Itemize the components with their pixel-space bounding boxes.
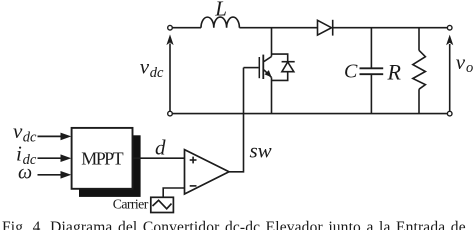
voltage arrow v_dc <box>166 34 173 111</box>
node: output positive terminal <box>447 25 452 30</box>
wire top rail: inductor to diode <box>239 27 317 29</box>
svg-text:dc: dc <box>150 65 164 81</box>
wire sw: comparator output to gate <box>229 68 244 172</box>
resistor R <box>413 50 426 89</box>
svg-text:v: v <box>456 50 466 74</box>
svg-text:v: v <box>13 119 23 143</box>
node: input negative terminal <box>168 111 173 116</box>
label input v_dc <box>13 119 37 145</box>
wire d: MPPT output to comparator plus input <box>133 157 185 159</box>
svg-text:L: L <box>214 0 227 20</box>
svg-text:v: v <box>140 55 150 79</box>
wire capacitor bottom <box>370 75 372 114</box>
wire top rail: diode to output terminal <box>333 27 448 29</box>
node: output negative terminal <box>447 111 452 116</box>
wire collector drop <box>271 28 273 57</box>
diode D1 <box>318 20 333 36</box>
svg-text:d: d <box>155 135 166 159</box>
voltage arrow v_o <box>446 35 453 112</box>
input arrow i_dc <box>38 154 72 162</box>
plus input marker <box>190 157 197 164</box>
input arrow omega <box>38 171 72 179</box>
input arrow v_dc <box>38 133 72 141</box>
node: input positive terminal <box>168 25 173 30</box>
label input i_dc <box>16 141 37 167</box>
carrier generator box <box>151 197 174 212</box>
wire emitter to bottom rail <box>271 77 273 113</box>
caption figure title <box>2 219 474 237</box>
label v_o <box>456 50 473 76</box>
inductor L <box>201 17 239 28</box>
freewheeling diode D2 across IGBT <box>272 54 295 80</box>
transistor Q1 (IGBT) <box>259 55 271 79</box>
svg-text:R: R <box>387 59 402 84</box>
svg-text:MPPT: MPPT <box>81 149 123 169</box>
MPPT block U1 <box>72 128 133 189</box>
wire top rail: input terminal to inductor <box>172 27 201 29</box>
wire resistor top <box>418 28 420 51</box>
wire carrier to comparator minus input <box>163 188 184 197</box>
wire capacitor top <box>370 28 372 68</box>
label v_dc (input voltage) <box>140 55 164 81</box>
svg-text:Carrier: Carrier <box>113 197 149 212</box>
svg-text:ω: ω <box>18 162 32 184</box>
capacitor C <box>360 68 384 74</box>
minus input marker <box>190 185 197 187</box>
wire bottom rail <box>172 113 447 115</box>
MPPT block shadow <box>79 135 141 197</box>
wire gate lead <box>244 67 259 69</box>
svg-text:o: o <box>466 60 473 76</box>
svg-text:C: C <box>344 61 358 83</box>
op-amp comparator U2 <box>185 150 230 194</box>
svg-text:dc: dc <box>23 129 37 145</box>
svg-text:sw: sw <box>250 139 272 163</box>
wire resistor bottom <box>418 89 420 113</box>
